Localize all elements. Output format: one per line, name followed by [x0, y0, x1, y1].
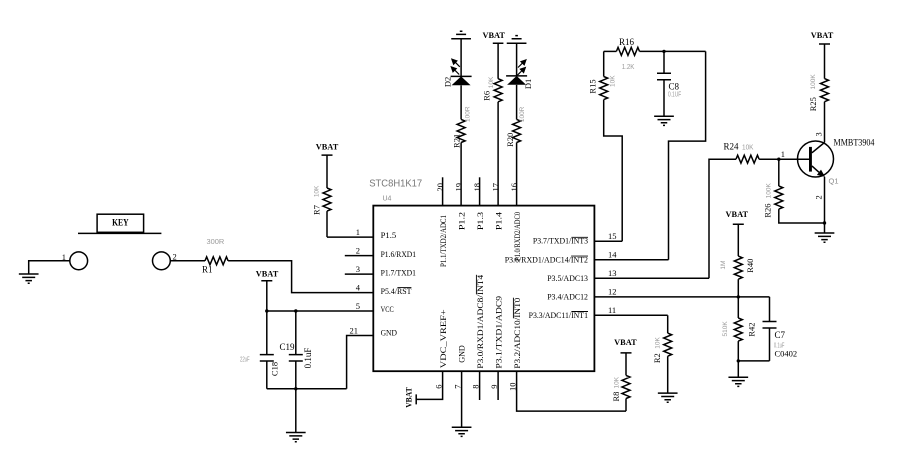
svg-text:17: 17: [491, 183, 501, 192]
svg-text:R2: R2: [652, 353, 662, 363]
ground (Q1 emitter): [815, 233, 835, 242]
left pin numbers: [350, 227, 361, 336]
svg-text:R20: R20: [505, 133, 515, 147]
svg-text:18: 18: [472, 183, 482, 192]
svg-text:2: 2: [356, 245, 360, 255]
svg-text:100R: 100R: [519, 106, 526, 122]
resistor R8 body: [622, 375, 630, 398]
svg-text:20: 20: [435, 183, 445, 192]
IC right pin labels: [505, 236, 588, 320]
IC top pin labels (rotated): [438, 211, 522, 267]
svg-text:9: 9: [489, 385, 499, 389]
overline INT4 (rotated): [475, 275, 477, 295]
bottom pin numbers: [434, 383, 518, 392]
wire to ground: [737, 361, 739, 377]
ground (R42): [728, 377, 748, 386]
svg-text:P3.4/ADC12: P3.4/ADC12: [547, 291, 588, 301]
svg-text:0.1UF: 0.1UF: [668, 92, 681, 99]
pin 2 stub: [345, 255, 374, 257]
wire D2 to R21: [460, 85, 462, 119]
svg-text:6: 6: [434, 385, 444, 389]
svg-text:VBAT: VBAT: [811, 30, 834, 40]
pin 1 stub: [327, 236, 373, 238]
wire emitter to ground: [824, 177, 826, 233]
svg-text:P1.3: P1.3: [475, 212, 485, 230]
svg-text:10K: 10K: [655, 337, 662, 349]
svg-text:R8: R8: [611, 392, 621, 402]
svg-text:R1: R1: [202, 265, 213, 275]
wire R26 bottom to emitter: [779, 209, 825, 223]
svg-text:3: 3: [356, 264, 360, 274]
IC bottom pin labels (rotated): [438, 274, 522, 369]
svg-text:VBAT: VBAT: [316, 141, 339, 151]
resistor R40 body: [734, 256, 742, 279]
svg-text:15: 15: [608, 231, 617, 241]
capacitor C19: [289, 311, 303, 389]
junction R26/base wire: [777, 158, 780, 161]
svg-text:C0402: C0402: [775, 349, 798, 359]
power VBAT (R7): [322, 155, 333, 188]
switch KEY cap: [97, 214, 144, 232]
overline INT2: [571, 255, 588, 257]
switch actuator bar: [78, 232, 161, 234]
svg-text:R42: R42: [746, 323, 756, 337]
LED D1 triangle: [507, 76, 526, 85]
svg-text:P1.0/RXD2/ADC0: P1.0/RXD2/ADC0: [512, 212, 522, 261]
wire rail to GND pin21: [347, 336, 374, 389]
svg-text:2: 2: [173, 252, 177, 262]
resistor R6 body: [494, 79, 502, 102]
svg-text:VBAT: VBAT: [726, 209, 749, 219]
pin 12 wire: [594, 296, 738, 298]
svg-text:R26: R26: [762, 204, 772, 218]
svg-text:D1: D1: [523, 79, 533, 89]
pin 6 wire to VBAT: [416, 371, 442, 404]
svg-text:C8: C8: [669, 82, 680, 92]
svg-text:P1.5: P1.5: [381, 230, 397, 240]
svg-text:GND: GND: [381, 328, 397, 338]
svg-text:12: 12: [608, 286, 617, 296]
key contact circle 2: [153, 252, 171, 270]
resistor R7 body: [323, 188, 331, 211]
ground (R2): [658, 393, 678, 402]
capacitor C8: [657, 51, 671, 116]
svg-text:R24: R24: [724, 142, 740, 152]
svg-text:1: 1: [781, 149, 785, 159]
wire key pin1 to ground: [29, 261, 70, 274]
pin 10 wire to R8: [517, 371, 626, 411]
svg-text:3: 3: [814, 132, 824, 136]
svg-text:8: 8: [471, 385, 481, 389]
svg-text:11: 11: [608, 305, 616, 315]
IC U4 body: [373, 206, 594, 372]
overline RST: [397, 287, 411, 289]
power VBAT (R40) bar: [733, 224, 744, 256]
key contact circle 1: [70, 252, 88, 270]
pin 15 wire: [594, 240, 622, 242]
overline INT0 (rotated): [512, 298, 514, 319]
LED D1 arrows: [517, 60, 526, 75]
svg-text:P1.1/TXD2/ADC1: P1.1/TXD2/ADC1: [438, 215, 448, 267]
svg-text:100K: 100K: [765, 183, 772, 199]
svg-text:1M: 1M: [720, 261, 727, 270]
wire R15 top: [603, 51, 605, 76]
wire R20 to pin16: [516, 143, 518, 206]
svg-text:100R: 100R: [464, 106, 471, 122]
pin 9 stub: [497, 371, 499, 400]
wire R24 to base: [759, 158, 809, 160]
resistor R16 body: [616, 47, 639, 55]
svg-text:VBAT: VBAT: [404, 387, 414, 408]
svg-text:STC8H1K17: STC8H1K17: [369, 178, 422, 190]
svg-text:100K: 100K: [810, 74, 817, 90]
svg-text:R25: R25: [808, 97, 818, 111]
resistor R42: [737, 297, 739, 318]
pin 11 wire: [594, 314, 667, 316]
overline INT1: [571, 311, 588, 313]
junction C8/R16 on top rail: [662, 50, 665, 53]
svg-text:VDC_VREF+: VDC_VREF+: [438, 309, 448, 368]
power VBAT (R6) bar: [493, 43, 504, 78]
svg-text:C7: C7: [775, 330, 786, 340]
svg-text:P1.6/RXD1: P1.6/RXD1: [381, 249, 416, 259]
svg-text:5: 5: [356, 301, 360, 311]
transistor Q1: [798, 141, 834, 177]
svg-text:10K: 10K: [610, 75, 617, 87]
svg-text:P1.7/TXD1: P1.7/TXD1: [381, 268, 416, 278]
svg-text:P1.2: P1.2: [456, 212, 466, 230]
inverted ground (D1): [507, 36, 527, 44]
svg-text:D2: D2: [442, 77, 452, 87]
svg-text:VCC: VCC: [381, 304, 394, 314]
resistor R21 body: [457, 119, 465, 142]
svg-text:MMBT3904: MMBT3904: [834, 137, 875, 147]
svg-text:10K: 10K: [314, 185, 321, 197]
svg-text:1: 1: [356, 227, 360, 237]
svg-text:10K: 10K: [488, 76, 495, 88]
wire cap bottom rail: [267, 388, 347, 390]
IC left pin labels: [381, 230, 416, 338]
wire R25 to collector: [824, 102, 826, 143]
pin 3 stub: [345, 273, 374, 275]
wire pin13 riser: [709, 159, 736, 278]
svg-text:510K: 510K: [722, 321, 729, 337]
junction R42/C7 bottom: [737, 359, 740, 362]
ground (C8): [654, 116, 674, 125]
wire D1 to R20: [516, 85, 518, 120]
power VBAT (R8) bar: [621, 353, 632, 376]
wire R40 to junction: [737, 279, 739, 297]
svg-text:GND: GND: [456, 345, 466, 363]
pin 7 wire to ground: [461, 371, 463, 427]
svg-text:14: 14: [608, 249, 617, 259]
LED D2 triangle: [452, 76, 471, 85]
LED D2 cathode bar: [451, 75, 472, 77]
junction VBAT/C18 on VCC rail: [265, 309, 268, 312]
LED D1 cathode bar: [506, 75, 527, 77]
wire R7 to pin1: [326, 211, 328, 237]
svg-text:R16: R16: [619, 37, 635, 47]
inverted ground (D2): [451, 31, 471, 39]
svg-text:10: 10: [508, 383, 518, 392]
resistor R25 body: [821, 79, 829, 102]
svg-text:10K: 10K: [614, 376, 621, 388]
capacitor C7: [763, 297, 777, 361]
top pin numbers: [435, 183, 519, 192]
svg-text:R15: R15: [588, 79, 598, 93]
svg-text:1.2K: 1.2K: [622, 64, 635, 71]
svg-text:U4: U4: [383, 196, 392, 203]
junction R26/emitter rail: [823, 221, 826, 224]
svg-text:R6: R6: [482, 91, 492, 101]
svg-text:10K: 10K: [742, 145, 754, 152]
wire gnd to D1: [516, 43, 518, 76]
pin 20 stub: [442, 177, 444, 205]
resistor R20 body: [513, 119, 521, 142]
svg-text:Q1: Q1: [829, 177, 839, 186]
svg-text:300R: 300R: [207, 239, 225, 246]
wire top rail left: [604, 50, 617, 52]
pin 18 stub: [479, 177, 481, 205]
svg-text:P3.5/ADC13: P3.5/ADC13: [547, 273, 588, 283]
svg-text:1: 1: [62, 252, 66, 262]
svg-text:VBAT: VBAT: [482, 30, 505, 40]
LED D2 arrows: [451, 59, 460, 74]
wire bottom rail: [738, 360, 769, 362]
wire VCC rail: [267, 310, 374, 312]
svg-text:R21: R21: [452, 134, 462, 148]
svg-text:13: 13: [608, 268, 617, 278]
ground (caps): [286, 433, 306, 442]
svg-text:C19: C19: [280, 342, 296, 352]
svg-text:2: 2: [814, 195, 824, 199]
pin 13 wire: [594, 277, 709, 279]
wire R21 to pin19: [460, 143, 462, 206]
ground (key pin1): [19, 274, 39, 283]
right pin numbers: [608, 231, 617, 315]
svg-text:VBAT: VBAT: [256, 268, 279, 278]
svg-text:19: 19: [454, 183, 464, 192]
power VBAT (R25) bar: [819, 44, 830, 79]
junction C19 on VCC rail: [294, 309, 297, 312]
svg-text:16: 16: [509, 183, 519, 192]
overline INT3: [571, 236, 588, 238]
wire R8 bottom: [625, 399, 627, 412]
wire gnd to D2: [460, 39, 462, 77]
resistor R24 body: [736, 155, 759, 163]
junction R40/R42/pin12: [737, 295, 740, 298]
svg-text:R7: R7: [311, 205, 321, 215]
resistor R2: [667, 315, 669, 333]
svg-text:7: 7: [453, 385, 463, 389]
capacitor C18: [260, 311, 274, 389]
svg-text:0.1uF: 0.1uF: [303, 348, 313, 369]
svg-text:22uF: 22uF: [240, 357, 250, 364]
svg-text:P1.4: P1.4: [493, 211, 503, 230]
svg-text:21: 21: [350, 326, 359, 336]
svg-text:KEY: KEY: [112, 218, 129, 228]
svg-text:P3.1/TXD1/ADC9: P3.1/TXD1/ADC9: [493, 296, 503, 369]
wire key pin2 to R1: [170, 260, 205, 262]
junction C19/ground drop on bottom rail: [294, 387, 297, 390]
svg-text:C18: C18: [270, 362, 280, 376]
wire R1 to pin4: [228, 261, 373, 293]
wire R15 bottom to pin15: [604, 100, 623, 242]
wire top rail right: [640, 50, 706, 52]
svg-text:R40: R40: [745, 259, 755, 273]
wire C8 loop right to pin14: [669, 51, 706, 259]
resistor R1 body: [205, 257, 228, 265]
pin 8 stub: [479, 371, 481, 400]
svg-text:VBAT: VBAT: [614, 337, 637, 347]
ground (pin7): [452, 427, 472, 436]
resistor R26 body: [775, 186, 783, 209]
pin 14 wire: [594, 259, 668, 261]
wire R6 to pin17: [497, 102, 499, 206]
resistor R15 body: [600, 77, 608, 100]
wire junction to C7: [738, 296, 769, 298]
wire rail to ground: [295, 389, 297, 433]
wire R26 top: [778, 159, 780, 186]
power VBAT (mid-left) bar: [261, 281, 272, 311]
